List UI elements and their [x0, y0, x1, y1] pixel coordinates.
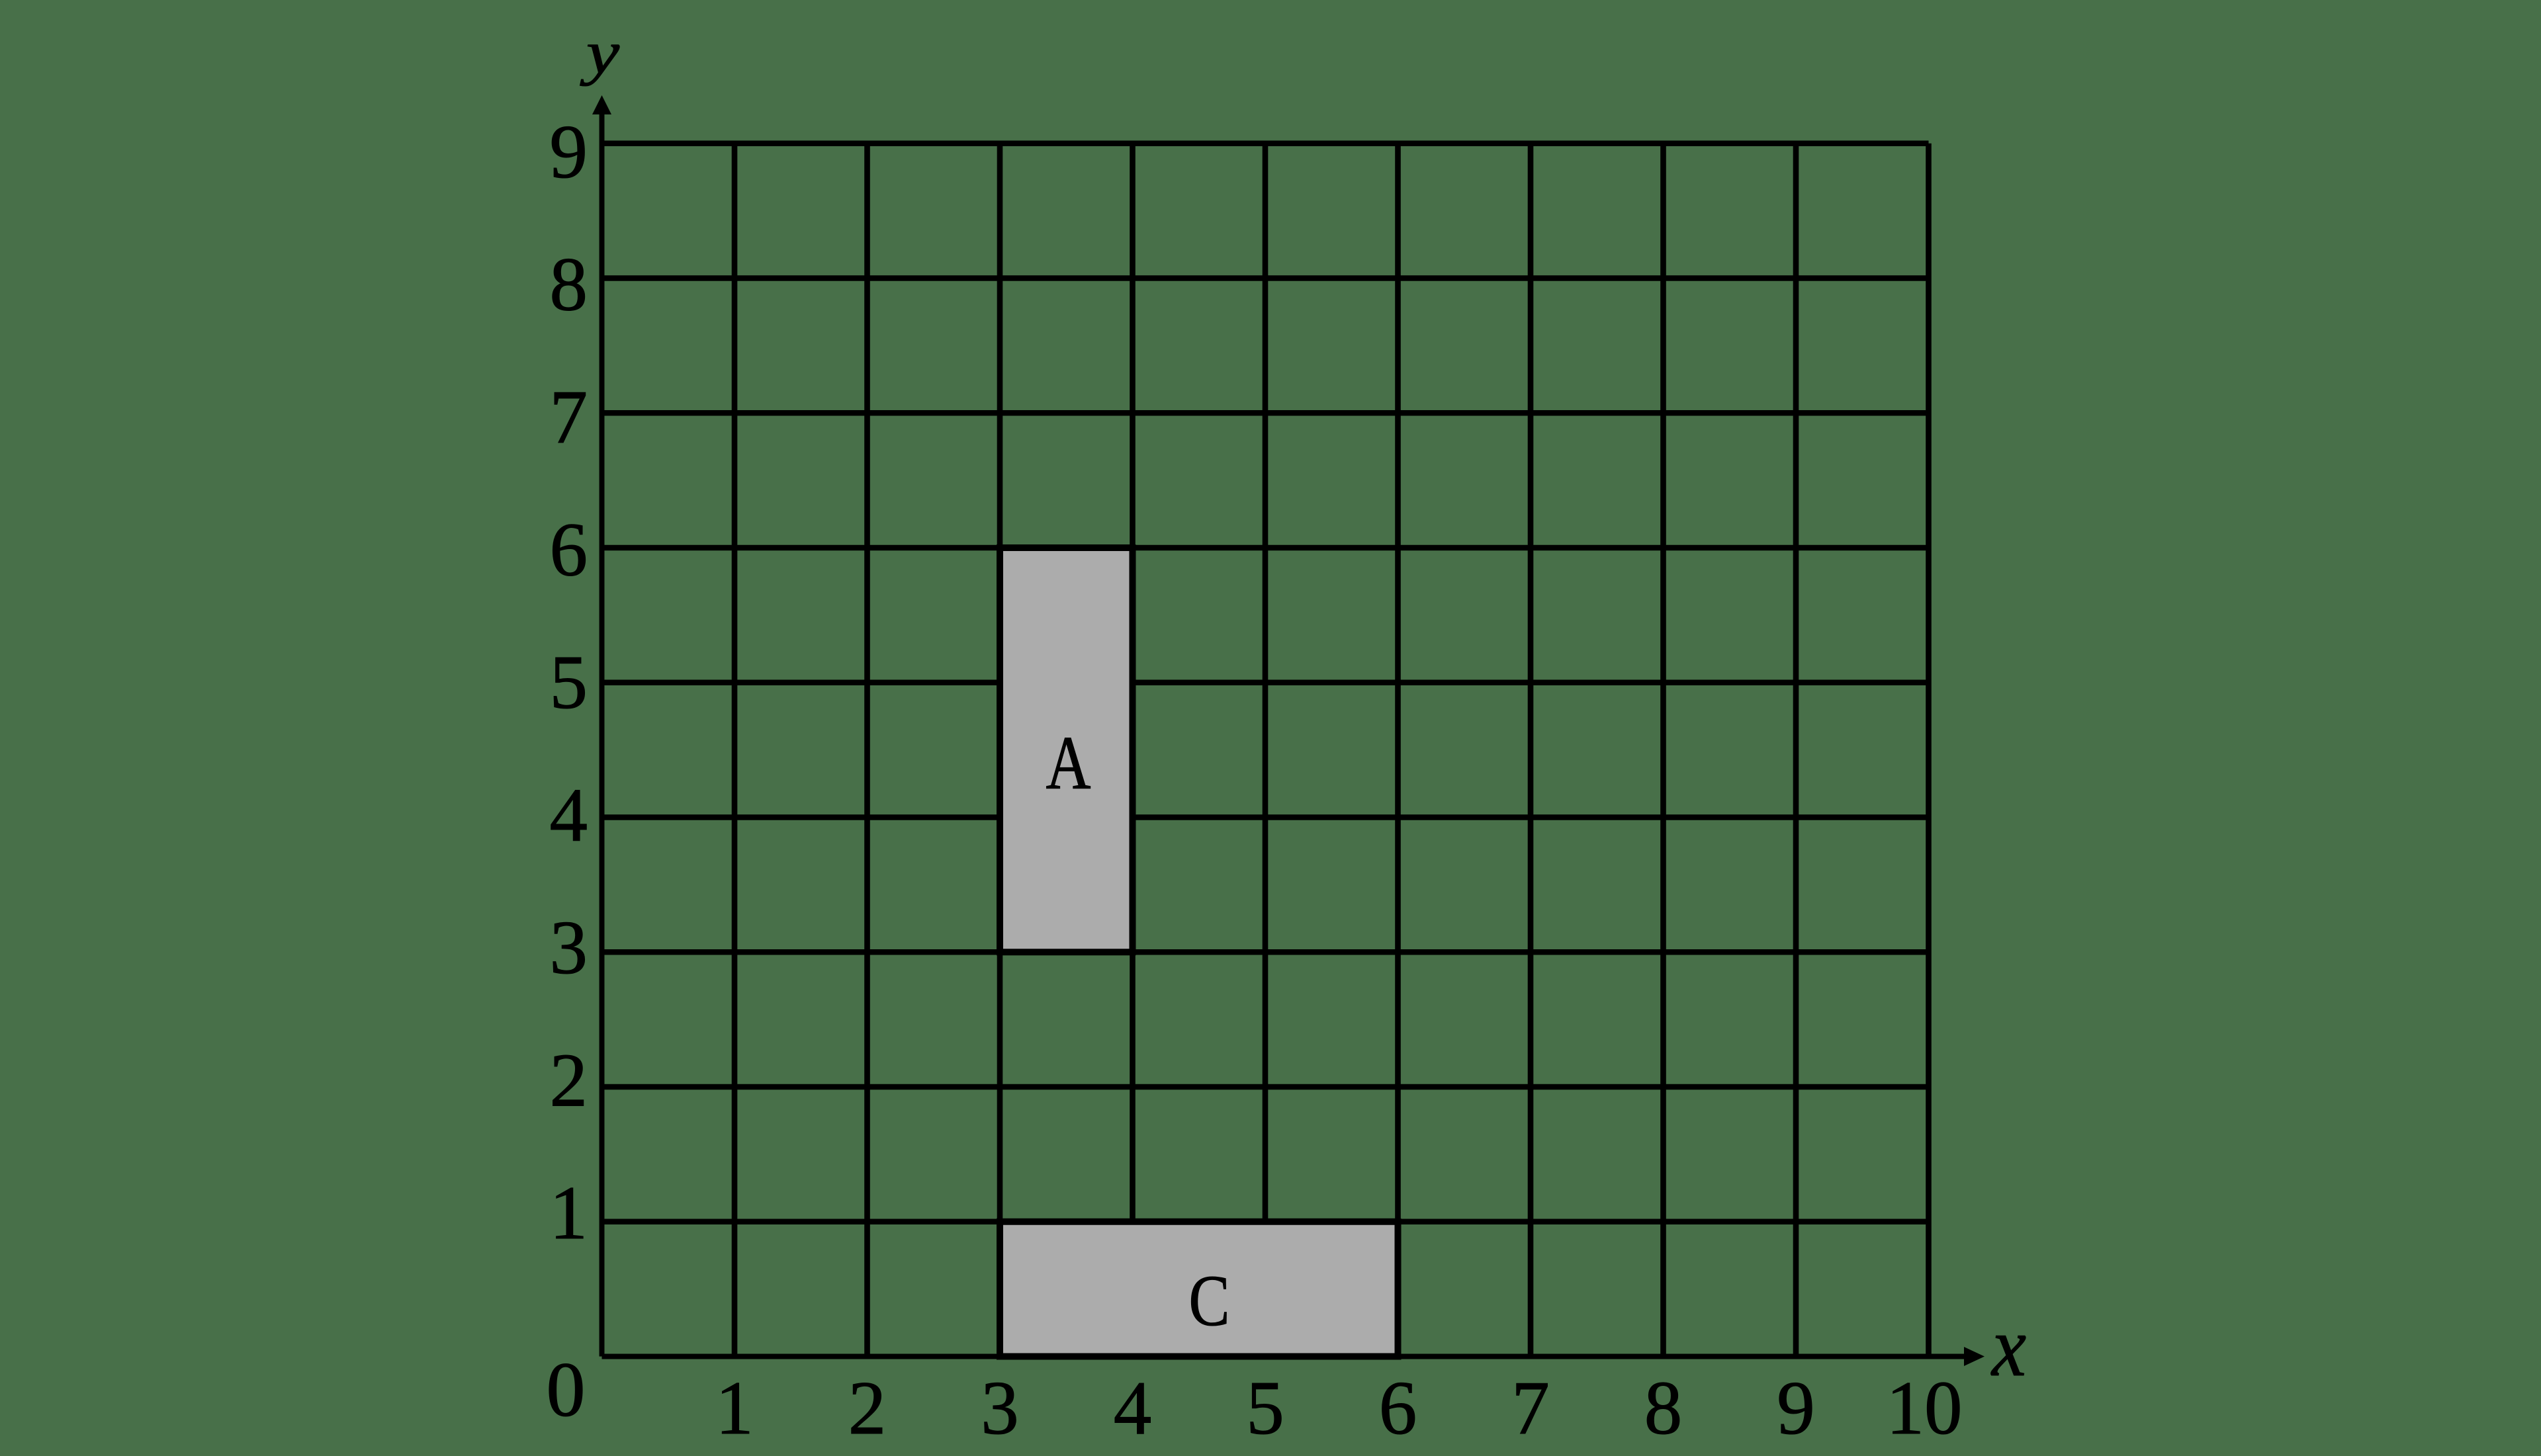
svg-text:7: 7: [550, 375, 588, 459]
svg-text:1: 1: [550, 1171, 588, 1255]
x axis arrowhead: [1964, 1347, 1984, 1366]
svg-text:4: 4: [550, 773, 588, 857]
rectangle A (3,3)-(4,6): [1000, 548, 1133, 952]
svg-text:A: A: [1046, 721, 1091, 806]
svg-text:3: 3: [550, 906, 588, 990]
svg-text:6: 6: [1379, 1366, 1417, 1450]
svg-text:C: C: [1189, 1260, 1230, 1341]
svg-text:4: 4: [1114, 1366, 1152, 1450]
grid vertical lines x=1..10: [735, 144, 1929, 1357]
grid horizontal lines y=1..9: [602, 144, 1929, 1222]
svg-text:3: 3: [981, 1366, 1019, 1450]
x axis: [602, 1354, 1965, 1359]
y axis: [600, 114, 605, 1357]
svg-text:9: 9: [1777, 1366, 1815, 1450]
y axis arrowhead: [592, 95, 611, 114]
svg-text:2: 2: [550, 1039, 588, 1123]
svg-text:6: 6: [550, 508, 588, 592]
svg-text:8: 8: [550, 243, 588, 327]
x axis tick numbers 0..10: [547, 1346, 1963, 1450]
svg-text:9: 9: [550, 110, 588, 194]
svg-text:10: 10: [1887, 1366, 1963, 1450]
svg-text:7: 7: [1511, 1366, 1550, 1450]
svg-text:x: x: [1990, 1299, 2026, 1394]
svg-text:y: y: [580, 19, 619, 86]
svg-text:5: 5: [1246, 1366, 1284, 1450]
svg-text:5: 5: [550, 640, 588, 724]
y axis tick numbers 1..9: [550, 110, 588, 1255]
svg-text:2: 2: [848, 1366, 887, 1450]
rectangle C (3,0)-(6,1): [1000, 1222, 1398, 1357]
svg-text:1: 1: [715, 1366, 754, 1450]
svg-text:8: 8: [1644, 1366, 1683, 1450]
svg-text:0: 0: [547, 1346, 586, 1433]
